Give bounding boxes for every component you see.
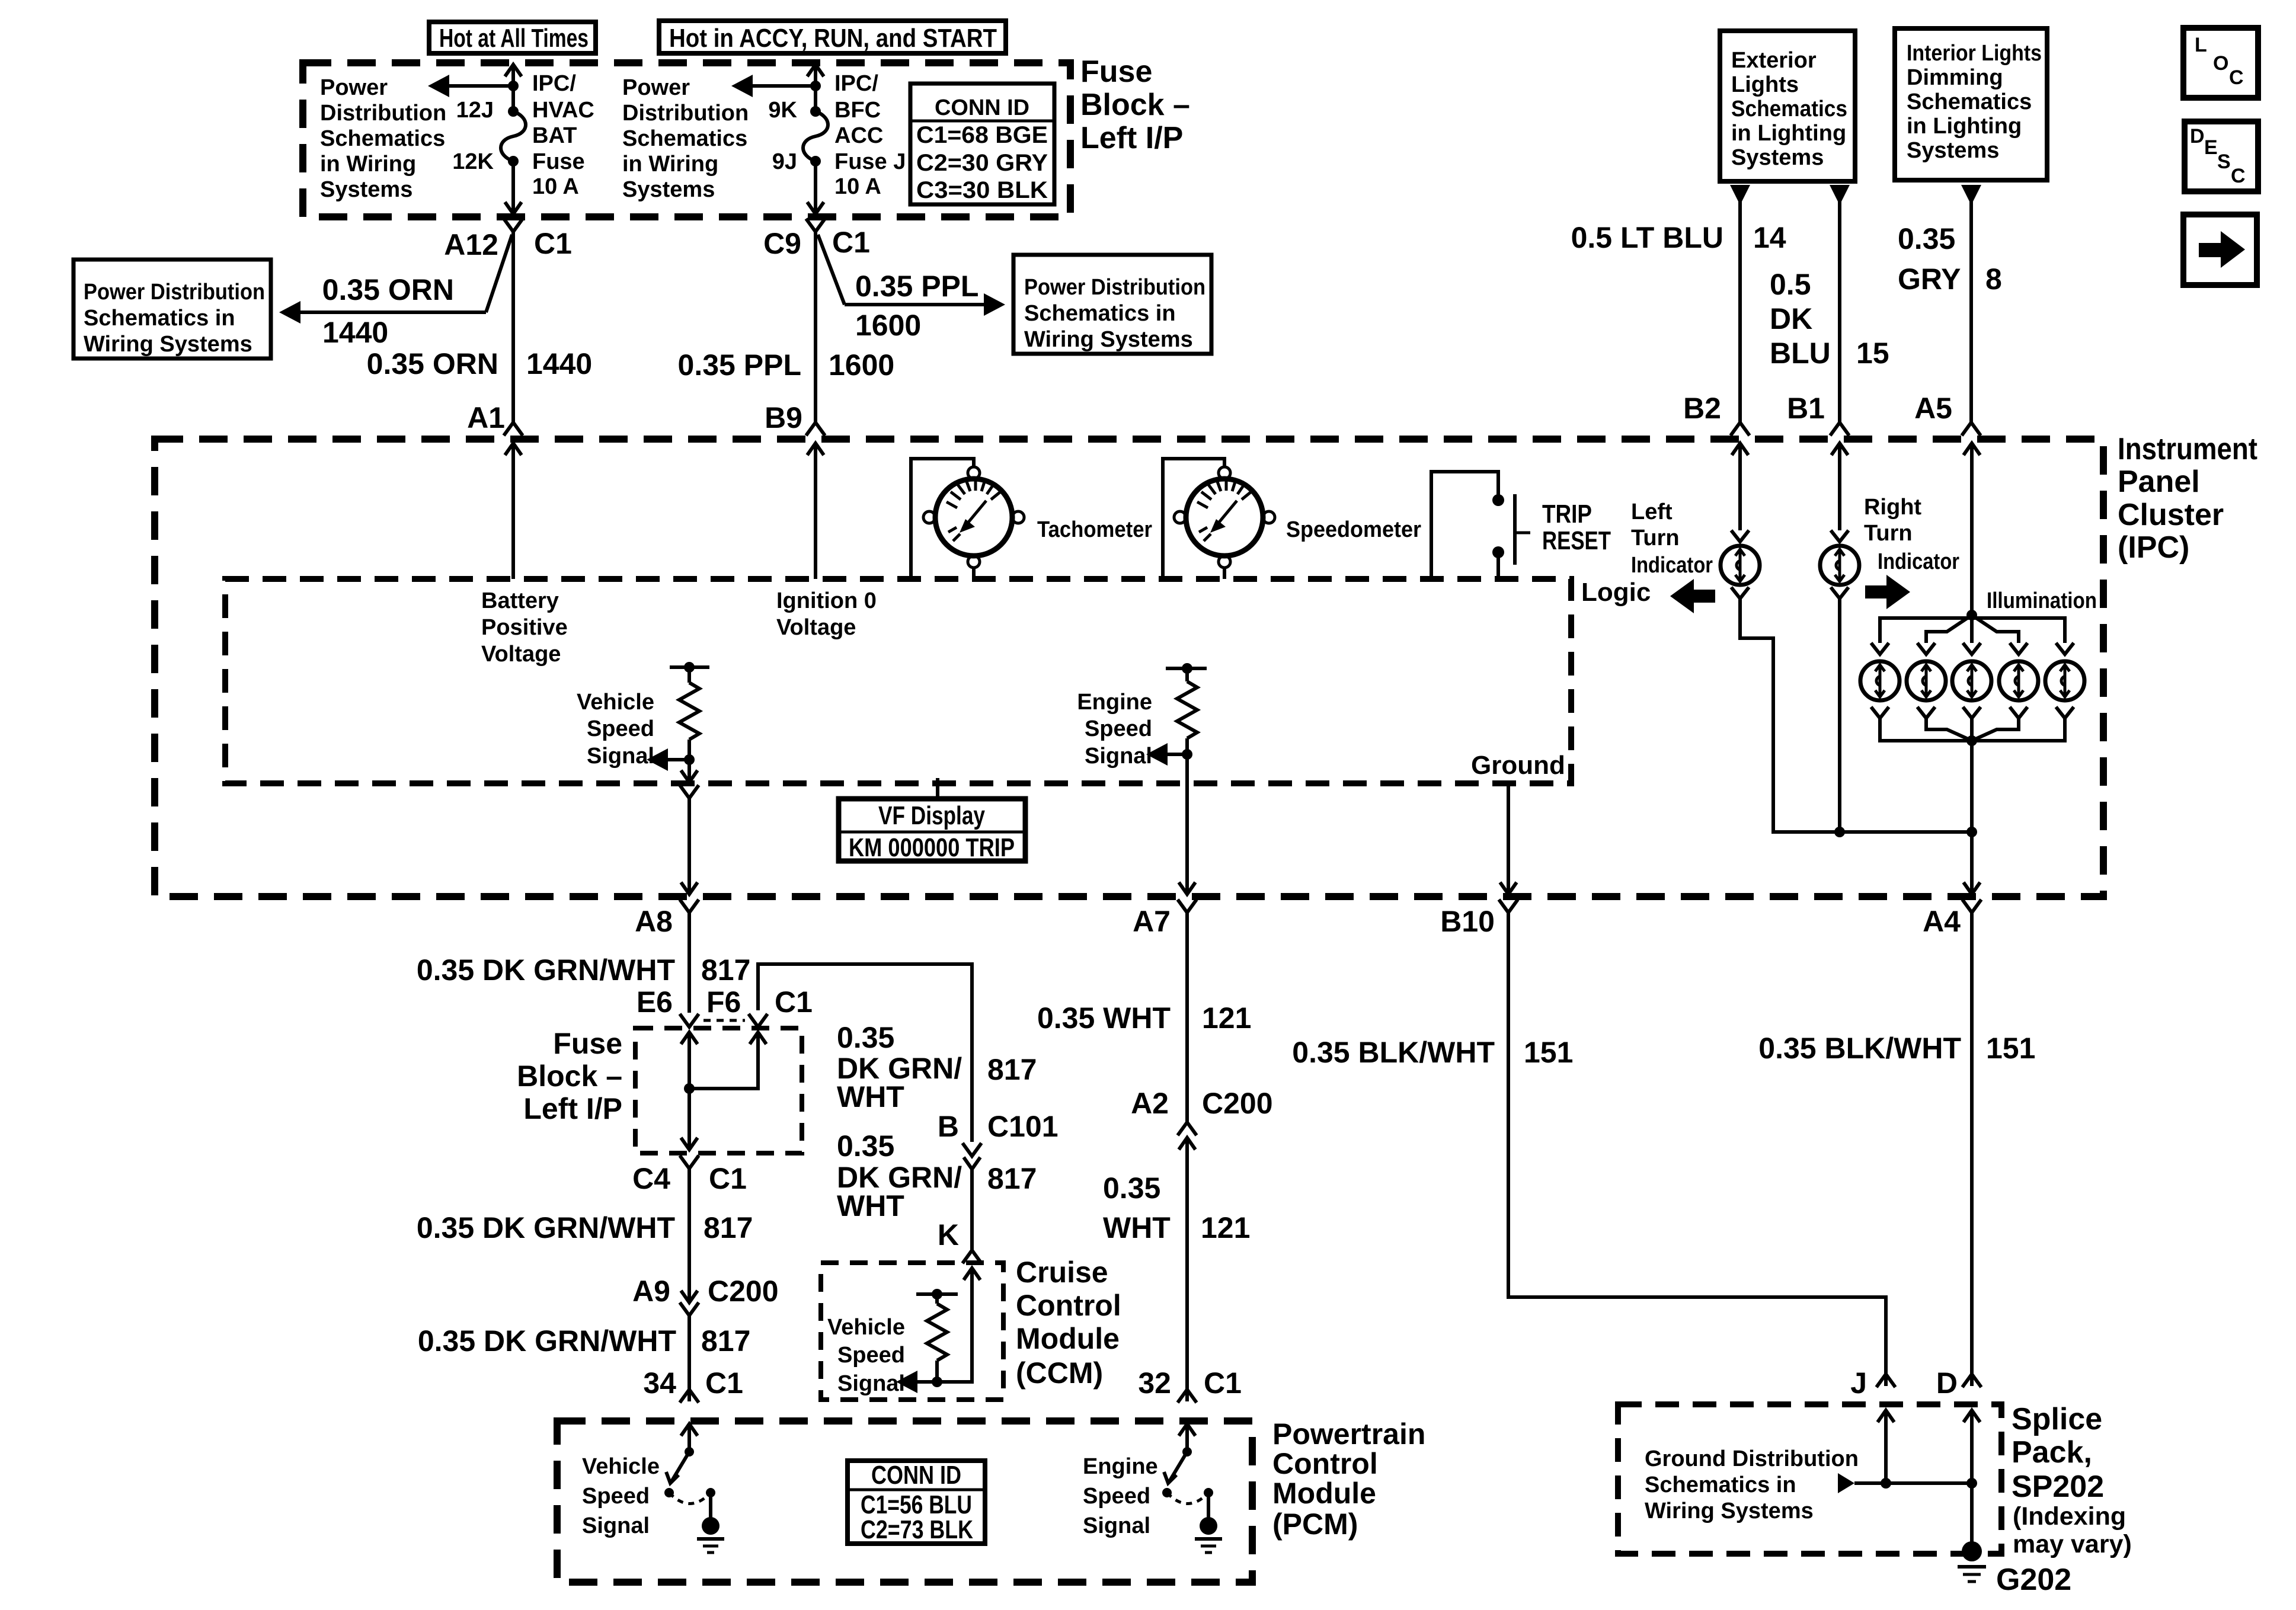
svg-text:0.35 DK GRN/WHT: 0.35 DK GRN/WHT bbox=[417, 1211, 675, 1244]
svg-text:Tachometer: Tachometer bbox=[1037, 517, 1152, 542]
svg-text:Control: Control bbox=[1272, 1447, 1378, 1480]
connector forks below illumination bulbs bbox=[1871, 707, 2074, 718]
svg-text:in Wiring: in Wiring bbox=[320, 152, 416, 177]
svg-text:Engine: Engine bbox=[1077, 690, 1152, 715]
connector forks above illumination bulbs bbox=[1871, 643, 2074, 654]
svg-text:Schematics: Schematics bbox=[1731, 97, 1847, 121]
svg-text:Voltage: Voltage bbox=[776, 615, 856, 640]
node: left/right indicator ground junction bbox=[1834, 827, 1845, 837]
svg-text:J: J bbox=[1850, 1366, 1867, 1400]
svg-text:BLU: BLU bbox=[1770, 337, 1831, 370]
wire: 0.5 LT BLU 14 (B2) bbox=[1738, 201, 1742, 423]
ground: vehicle speed signal switch bbox=[697, 1493, 724, 1553]
label: 0.5 DK BLU bbox=[1770, 268, 1831, 370]
svg-text:Signal: Signal bbox=[1083, 1513, 1150, 1538]
svg-text:KM 000000 TRIP: KM 000000 TRIP bbox=[849, 833, 1015, 862]
arrow up inside fuse block (C1 wire) bbox=[750, 1032, 766, 1044]
connector fork B2 at IPC top bbox=[1731, 422, 1750, 436]
svg-text:Systems: Systems bbox=[320, 177, 412, 202]
reference box: Interior Lights Dimming Schematics in Lighting Systems bbox=[1895, 28, 2047, 180]
svg-text:Logic: Logic bbox=[1581, 578, 1651, 607]
wire: illumination feed to bulb 3 bbox=[1970, 615, 1974, 643]
VF Display box bbox=[839, 778, 1025, 862]
wire: illumination bottom bus bbox=[1880, 718, 2065, 741]
label: Cruise Control Module (CCM) bbox=[1016, 1256, 1121, 1390]
label: 0.35 WHT (A2) bbox=[1103, 1172, 1171, 1244]
svg-text:Interior Lights: Interior Lights bbox=[1907, 41, 2042, 66]
svg-text:12J: 12J bbox=[456, 98, 494, 123]
svg-text:34: 34 bbox=[643, 1366, 676, 1400]
dashed link between fuse block connectors bbox=[703, 1019, 745, 1022]
svg-text:Systems: Systems bbox=[622, 177, 715, 202]
connector fork K at CCM top bbox=[962, 1250, 981, 1263]
label: Ignition 0 Voltage bbox=[776, 588, 877, 640]
svg-text:L: L bbox=[2195, 34, 2207, 56]
svg-text:151: 151 bbox=[1986, 1032, 2035, 1065]
svg-text:Wiring Systems: Wiring Systems bbox=[1645, 1499, 1814, 1523]
wire: left turn bulb to junction bbox=[1740, 598, 1840, 832]
wire: A2 to PCM pin 32 bbox=[1185, 1138, 1189, 1401]
svg-text:C2=73 BLK: C2=73 BLK bbox=[861, 1515, 973, 1544]
label: Battery Positive Voltage bbox=[481, 588, 568, 667]
svg-text:Lights: Lights bbox=[1731, 72, 1799, 97]
connector fork C9/C1 bbox=[806, 219, 825, 232]
svg-text:Schematics in: Schematics in bbox=[1645, 1473, 1796, 1497]
svg-text:Power: Power bbox=[320, 75, 388, 100]
svg-text:C: C bbox=[2231, 165, 2246, 187]
splice pack dashed box bbox=[1618, 1404, 2001, 1554]
wire: B9 ignition feed inside IPC bbox=[814, 443, 817, 579]
in-line connector A9/C200 bbox=[680, 1291, 699, 1315]
arrow up inside splice pack at J bbox=[1878, 1410, 1894, 1422]
svg-text:C200: C200 bbox=[1202, 1087, 1273, 1120]
svg-text:Vehicle: Vehicle bbox=[827, 1315, 905, 1340]
label: Right Turn Indicator bbox=[1864, 495, 1959, 574]
triangle marker: exterior lights to B2 bbox=[1730, 185, 1750, 205]
label: Vehicle Speed Signal (PCM) bbox=[582, 1454, 660, 1538]
svg-text:Ground Distribution: Ground Distribution bbox=[1645, 1446, 1859, 1471]
svg-text:0.35: 0.35 bbox=[1103, 1172, 1160, 1205]
svg-text:Splice: Splice bbox=[2012, 1402, 2102, 1436]
wire: C9 to B9 (0.35 PPL) bbox=[814, 232, 817, 423]
svg-text:S: S bbox=[2217, 151, 2231, 173]
connector fork above right turn bulb bbox=[1831, 530, 1849, 542]
svg-text:9K: 9K bbox=[768, 98, 797, 123]
switch: vehicle speed signal (PCM) bbox=[664, 1447, 715, 1504]
wire: speedometer bottom to logic box bbox=[1223, 568, 1226, 579]
wire: C4 to A9 bbox=[687, 1169, 691, 1301]
svg-text:Illumination: Illumination bbox=[1987, 588, 2097, 613]
wire: slant branch from A12 to 0.35 ORN run bbox=[486, 235, 512, 312]
arrowhead: 0.35 ORN to Power Distribution box bbox=[279, 301, 300, 324]
svg-text:0.35: 0.35 bbox=[837, 1021, 894, 1054]
connector fork A5 at IPC top bbox=[1962, 422, 1981, 436]
connector fork B10 below IPC bbox=[1499, 900, 1518, 913]
legend box: LOC bbox=[2183, 28, 2258, 98]
connector fork 34 at PCM top bbox=[680, 1390, 699, 1403]
svg-text:0.35 DK GRN/WHT: 0.35 DK GRN/WHT bbox=[418, 1324, 676, 1358]
wire: bulb 2 return bbox=[1926, 718, 1972, 741]
svg-text:A7: A7 bbox=[1133, 905, 1171, 938]
svg-text:Fuse: Fuse bbox=[553, 1027, 622, 1060]
svg-text:Signal: Signal bbox=[837, 1371, 905, 1396]
connector fork A7 below IPC bbox=[1178, 900, 1197, 913]
Instrument Panel Cluster dashed box bbox=[155, 439, 2103, 897]
label: 0.35 DK GRN/WHT (branch upper) bbox=[837, 1021, 962, 1113]
label: Ground Distribution Schematics in Wiring Systems bbox=[1645, 1446, 1859, 1523]
connector fork below logic box (VSS) bbox=[680, 785, 699, 798]
svg-text:D: D bbox=[1936, 1366, 1958, 1400]
svg-text:0.5 LT BLU: 0.5 LT BLU bbox=[1571, 221, 1723, 254]
wire: C101 to CCM pin K bbox=[970, 1169, 974, 1250]
svg-text:A2: A2 bbox=[1131, 1087, 1169, 1120]
svg-text:C3=30 BLK: C3=30 BLK bbox=[916, 177, 1048, 203]
wire: 0.35 ORN 1440 horizontal run bbox=[299, 311, 486, 314]
svg-text:0.35 DK GRN/WHT: 0.35 DK GRN/WHT bbox=[417, 953, 675, 987]
arrow up at fuse block top edge (fuse J) bbox=[807, 65, 824, 76]
svg-text:A4: A4 bbox=[1923, 905, 1961, 938]
arrow down at IPC bottom edge (A4) bbox=[1964, 882, 1980, 894]
wire: 0.35 PPL 1600 horizontal run bbox=[845, 303, 985, 306]
svg-text:Left I/P: Left I/P bbox=[523, 1092, 622, 1125]
label: Vehicle Speed Signal (IPC) bbox=[577, 690, 654, 769]
lamp: Right Turn Indicator bulb bbox=[1820, 546, 1859, 585]
svg-text:Exterior: Exterior bbox=[1731, 48, 1817, 73]
svg-text:(PCM): (PCM) bbox=[1272, 1507, 1358, 1541]
wire: B10 ground run to splice pack J bbox=[1508, 913, 1886, 1386]
svg-text:WHT: WHT bbox=[837, 1189, 904, 1222]
arrow: CCM vehicle speed signal tap bbox=[896, 1371, 937, 1393]
svg-text:BAT: BAT bbox=[532, 123, 577, 148]
svg-text:Speed: Speed bbox=[587, 716, 654, 741]
svg-text:Power Distribution: Power Distribution bbox=[1024, 275, 1205, 300]
svg-text:Powertrain: Powertrain bbox=[1272, 1417, 1425, 1451]
label: Left Turn Indicator bbox=[1631, 500, 1713, 578]
svg-text:WHT: WHT bbox=[1103, 1211, 1171, 1244]
svg-text:ACC: ACC bbox=[834, 123, 883, 148]
svg-text:0.35 PPL: 0.35 PPL bbox=[855, 270, 978, 303]
triangle marker: exterior lights to B1 bbox=[1830, 185, 1850, 205]
svg-text:C9: C9 bbox=[763, 227, 801, 260]
svg-text:1440: 1440 bbox=[526, 347, 592, 380]
svg-text:D: D bbox=[2190, 125, 2205, 148]
svg-text:Turn: Turn bbox=[1631, 526, 1680, 550]
wire: Ground lead inside IPC bbox=[1507, 783, 1510, 894]
svg-text:Distribution: Distribution bbox=[320, 101, 446, 126]
svg-text:RESET: RESET bbox=[1542, 526, 1611, 555]
arrow up at fuse block top edge (fuse 1) bbox=[505, 65, 522, 76]
black arrow: left turn bbox=[1670, 579, 1715, 613]
node: splice junction J bbox=[1881, 1478, 1891, 1489]
wire: illumination feed to bulb 2 bbox=[1926, 615, 1972, 643]
wire: A4 ground run to splice pack D bbox=[1970, 913, 1974, 1386]
label: Engine Speed Signal (IPC) bbox=[1077, 690, 1152, 769]
svg-text:C4: C4 bbox=[632, 1162, 670, 1195]
svg-text:Speed: Speed bbox=[837, 1343, 905, 1368]
svg-text:CONN ID: CONN ID bbox=[871, 1461, 961, 1490]
wire: A7 to A2 bbox=[1185, 913, 1189, 1122]
arrow: engine speed signal tap bbox=[1146, 743, 1187, 766]
svg-text:(IPC): (IPC) bbox=[2118, 530, 2189, 565]
resistor: Vehicle Speed Signal (IPC) bbox=[670, 662, 709, 765]
svg-text:Wiring Systems: Wiring Systems bbox=[84, 332, 252, 357]
wire: branch to Power Distribution (left arrow, fuse J) bbox=[752, 84, 816, 88]
svg-text:B2: B2 bbox=[1683, 392, 1721, 425]
label: Instrument Panel Cluster (IPC) bbox=[2118, 432, 2257, 565]
in-line connector B/C101 bbox=[962, 1143, 981, 1169]
legend box: DESC bbox=[2185, 121, 2258, 191]
lamps: illumination bulbs x5 bbox=[1860, 661, 2084, 700]
svg-text:K: K bbox=[938, 1218, 959, 1251]
svg-text:1600: 1600 bbox=[855, 309, 921, 342]
svg-text:DK: DK bbox=[1770, 302, 1812, 335]
wire: indicator junction to A4 wire bbox=[1840, 830, 1972, 834]
svg-text:0.35: 0.35 bbox=[1898, 222, 1955, 255]
CONN ID table (PCM) bbox=[848, 1461, 985, 1544]
svg-text:121: 121 bbox=[1202, 1001, 1251, 1035]
fuse block dashed box (Fuse Block - Left I/P, top) bbox=[303, 63, 1070, 217]
svg-text:0.35: 0.35 bbox=[837, 1129, 894, 1163]
resistor: Vehicle Speed Signal (CCM) bbox=[916, 1289, 958, 1387]
black arrow: right turn bbox=[1865, 575, 1910, 609]
svg-text:10 A: 10 A bbox=[834, 174, 881, 199]
svg-text:A12: A12 bbox=[444, 228, 498, 261]
wire: bulb 3 return bbox=[1970, 718, 1974, 741]
label: Vehicle Speed Signal (CCM) bbox=[827, 1315, 905, 1396]
arrow down at fuse block bottom edge (fuse 1) bbox=[505, 202, 522, 214]
wire: fuse 1 output down bbox=[511, 161, 515, 215]
svg-text:1600: 1600 bbox=[829, 348, 894, 382]
text: Power Distribution Schematics in Wiring Systems (fuse J) bbox=[622, 75, 749, 202]
label: Fuse Block - Left I/P (lower) bbox=[517, 1027, 622, 1125]
svg-text:Positive: Positive bbox=[481, 615, 568, 640]
fuse F2: IPC/BFC ACC Fuse J 10 A bbox=[803, 106, 828, 167]
svg-text:Turn: Turn bbox=[1864, 521, 1913, 546]
wire: Hot in ACCY feed into fuse J bbox=[814, 64, 817, 111]
wire: A5 to illumination junction bbox=[1970, 443, 1974, 615]
arrow up inside IPC at A1 bbox=[505, 443, 522, 455]
arrow up inside splice pack at D bbox=[1964, 1410, 1980, 1422]
wire: K lead inside CCM bbox=[937, 1268, 972, 1382]
wire: slant branch from C9 to 0.35 PPL run bbox=[818, 235, 845, 305]
arrow down at IPC bottom edge (A7) bbox=[1179, 882, 1195, 894]
connector fork below left turn bulb bbox=[1731, 587, 1749, 598]
svg-text:Cluster: Cluster bbox=[2118, 498, 2224, 532]
svg-text:0.35 ORN: 0.35 ORN bbox=[367, 347, 498, 380]
svg-text:12K: 12K bbox=[452, 149, 494, 174]
svg-text:Signal: Signal bbox=[582, 1513, 650, 1538]
svg-text:TRIP: TRIP bbox=[1542, 500, 1592, 529]
svg-text:0.5: 0.5 bbox=[1770, 268, 1811, 301]
ground: engine speed signal switch bbox=[1195, 1493, 1222, 1553]
svg-text:Schematics in: Schematics in bbox=[84, 306, 235, 331]
svg-text:E6: E6 bbox=[637, 985, 673, 1019]
reference box: Exterior Lights Schematics in Lighting Systems bbox=[1720, 31, 1855, 181]
svg-text:Speedometer: Speedometer bbox=[1286, 517, 1421, 542]
wire: 0.5 DK BLU 15 (B1) bbox=[1838, 201, 1841, 423]
svg-text:1440: 1440 bbox=[322, 316, 388, 349]
label: 0.35 GRY bbox=[1898, 222, 1961, 296]
connector fork E6/F6 bbox=[680, 1014, 699, 1027]
lamp: Left Turn Indicator bulb bbox=[1721, 546, 1760, 585]
triangle marker: interior lights to A5 bbox=[1961, 185, 1981, 205]
arrow up inside IPC at A5 bbox=[1964, 443, 1980, 455]
label: IPC/HVAC BAT Fuse 10 A bbox=[532, 71, 594, 199]
svg-text:E: E bbox=[2204, 136, 2218, 159]
svg-text:817: 817 bbox=[703, 1211, 753, 1244]
wire: 817 branch to CCM (via C1) bbox=[758, 964, 972, 1142]
svg-text:Speed: Speed bbox=[582, 1484, 650, 1509]
svg-text:Speed: Speed bbox=[1083, 1484, 1150, 1509]
arrow down at logic box edge (VSS) bbox=[681, 770, 698, 782]
svg-text:B10: B10 bbox=[1440, 905, 1495, 938]
wire: A9 to PCM pin 34 bbox=[687, 1315, 691, 1401]
gauge: Speedometer bbox=[1163, 459, 1275, 579]
text: Power Distribution Schematics in Wiring Systems (fuse 1) bbox=[320, 75, 446, 202]
header box: Hot in ACCY, RUN, and START bbox=[659, 21, 1006, 53]
wire: VSS to A8 bbox=[687, 798, 691, 894]
svg-text:A5: A5 bbox=[1914, 392, 1952, 425]
svg-text:0.35 ORN: 0.35 ORN bbox=[322, 273, 454, 306]
svg-text:Vehicle: Vehicle bbox=[582, 1454, 660, 1479]
node: splice junction D bbox=[1966, 1478, 1977, 1489]
svg-text:GRY: GRY bbox=[1898, 263, 1961, 296]
svg-text:C1=68 BGE: C1=68 BGE bbox=[916, 122, 1048, 148]
svg-text:32: 32 bbox=[1138, 1366, 1171, 1400]
svg-text:CONN ID: CONN ID bbox=[935, 95, 1029, 120]
arrowhead: to Power Distribution Schematics (fuse J) bbox=[731, 75, 753, 97]
svg-text:121: 121 bbox=[1201, 1211, 1250, 1244]
svg-text:Power Distribution: Power Distribution bbox=[84, 280, 265, 305]
svg-text:Engine: Engine bbox=[1083, 1454, 1158, 1479]
svg-text:Schematics in: Schematics in bbox=[1024, 301, 1176, 326]
wire: branch to Power Distribution (left arrow, fuse 1) bbox=[448, 84, 513, 88]
svg-text:Hot in ACCY, RUN, and START: Hot in ACCY, RUN, and START bbox=[669, 24, 997, 53]
wire: B2 to left turn bulb bbox=[1738, 443, 1742, 530]
svg-text:SP202: SP202 bbox=[2012, 1470, 2104, 1504]
svg-text:C1: C1 bbox=[534, 227, 572, 260]
svg-text:Signal: Signal bbox=[587, 744, 654, 769]
wire: 0.35 GRY 8 (A5) bbox=[1969, 201, 1973, 423]
arrow down at IPC bottom edge (B10) bbox=[1500, 882, 1517, 894]
label: TRIP RESET bbox=[1542, 500, 1611, 555]
svg-text:Instrument: Instrument bbox=[2118, 432, 2257, 466]
arrowhead: 0.35 PPL to Power Distribution box bbox=[984, 293, 1005, 316]
svg-text:C2=30 GRY: C2=30 GRY bbox=[916, 150, 1048, 176]
wire: A8 to fuse block E6 bbox=[687, 913, 691, 1013]
wire: fuse block internal main bbox=[687, 1032, 691, 1150]
svg-text:Right: Right bbox=[1864, 495, 1921, 520]
connector fork below right turn bulb bbox=[1831, 587, 1849, 598]
connector fork C4 below fuse block bbox=[680, 1156, 699, 1169]
connector fork D at splice pack bbox=[1962, 1374, 1981, 1387]
svg-text:817: 817 bbox=[987, 1053, 1037, 1086]
connector fork 32 at PCM top bbox=[1178, 1390, 1197, 1403]
CONN ID table (fuse block) bbox=[910, 84, 1054, 204]
arrow down at fuse block bottom edge (C4) bbox=[681, 1138, 698, 1150]
wire: ESS to A7 bbox=[1185, 754, 1189, 894]
svg-text:C200: C200 bbox=[708, 1275, 779, 1308]
wire: A1 battery feed inside IPC bbox=[511, 443, 515, 579]
wire: B1 to right turn bulb bbox=[1838, 443, 1841, 530]
svg-text:Control: Control bbox=[1016, 1289, 1121, 1322]
connector fork A4 below IPC bbox=[1962, 900, 1981, 913]
svg-text:Hot at All Times: Hot at All Times bbox=[439, 24, 589, 53]
svg-text:BFC: BFC bbox=[834, 98, 881, 123]
label: Fuse Block - Left I/P bbox=[1080, 55, 1190, 155]
svg-text:8: 8 bbox=[1985, 263, 2002, 296]
svg-text:Ignition 0: Ignition 0 bbox=[776, 588, 877, 613]
arrow down at IPC bottom edge (A8) bbox=[681, 882, 698, 894]
svg-text:0.35 BLK/WHT: 0.35 BLK/WHT bbox=[1758, 1032, 1961, 1065]
label: Engine Speed Signal (PCM) bbox=[1083, 1454, 1158, 1538]
svg-text:Voltage: Voltage bbox=[481, 642, 561, 667]
svg-text:Cruise: Cruise bbox=[1016, 1256, 1108, 1289]
svg-text:VF Display: VF Display bbox=[878, 801, 985, 830]
svg-text:Schematics: Schematics bbox=[1907, 89, 2032, 114]
wire: splice to ground G202 bbox=[1970, 1483, 1974, 1547]
wire: D lead to splice junction bbox=[1970, 1410, 1974, 1483]
svg-text:C: C bbox=[2229, 66, 2244, 89]
switch: TRIP RESET button bbox=[1431, 472, 1530, 579]
svg-text:Fuse J: Fuse J bbox=[834, 149, 906, 174]
Powertrain Control Module dashed box bbox=[557, 1421, 1252, 1582]
label: Splice Pack, SP202 (Indexing may vary) bbox=[2012, 1402, 2132, 1558]
wire: right turn bulb to junction bbox=[1838, 598, 1841, 832]
svg-text:B1: B1 bbox=[1787, 392, 1825, 425]
svg-text:Fuse: Fuse bbox=[1080, 55, 1152, 89]
svg-text:Systems: Systems bbox=[1731, 145, 1824, 170]
svg-text:Vehicle: Vehicle bbox=[577, 690, 654, 715]
svg-text:0.35 BLK/WHT: 0.35 BLK/WHT bbox=[1292, 1036, 1495, 1069]
svg-text:Block –: Block – bbox=[1080, 88, 1190, 122]
IPC logic sub-box (dashed) bbox=[225, 579, 1571, 783]
svg-text:Dimming: Dimming bbox=[1907, 65, 2003, 90]
svg-text:B9: B9 bbox=[765, 401, 802, 434]
arrow up inside PCM at 32 bbox=[1179, 1424, 1195, 1436]
header box: Hot at All Times bbox=[429, 22, 596, 53]
svg-text:817: 817 bbox=[701, 953, 750, 987]
svg-text:0.35 WHT: 0.35 WHT bbox=[1037, 1001, 1171, 1035]
wire: fuse J output down bbox=[814, 161, 817, 215]
svg-text:Module: Module bbox=[1272, 1477, 1376, 1510]
svg-text:HVAC: HVAC bbox=[532, 98, 594, 123]
svg-text:Ground: Ground bbox=[1471, 751, 1565, 780]
reference box: Power Distribution Schematics in Wiring Systems (left) bbox=[73, 260, 271, 359]
svg-text:Distribution: Distribution bbox=[622, 101, 749, 126]
arrowhead: to Power Distribution Schematics (fuse 1) bbox=[428, 75, 449, 97]
svg-text:817: 817 bbox=[987, 1162, 1037, 1195]
svg-text:(Indexing: (Indexing bbox=[2013, 1502, 2126, 1531]
svg-text:A9: A9 bbox=[632, 1275, 670, 1308]
switch: engine speed signal (PCM) bbox=[1162, 1447, 1213, 1504]
svg-text:IPC/: IPC/ bbox=[532, 71, 576, 96]
ground G202 bbox=[1958, 1541, 1986, 1582]
triangle marker: ground distribution feed bbox=[1838, 1473, 1854, 1493]
wire: bulb 4 return bbox=[1972, 718, 2019, 741]
arrow down at fuse block bottom edge (fuse J) bbox=[807, 202, 824, 214]
svg-text:Systems: Systems bbox=[1907, 138, 1999, 163]
connector fork above left turn bulb bbox=[1731, 530, 1749, 542]
svg-text:C101: C101 bbox=[987, 1110, 1059, 1143]
Cruise Control Module dashed box bbox=[821, 1263, 1003, 1400]
wire: tachometer bottom to logic box bbox=[972, 568, 976, 579]
connector fork C1 (branch) bbox=[749, 1014, 768, 1027]
wire: fuse block internal branch bbox=[689, 1032, 758, 1089]
svg-text:Pack,: Pack, bbox=[2012, 1435, 2092, 1470]
connector fork B9 at IPC top bbox=[806, 422, 825, 436]
svg-text:F6: F6 bbox=[706, 985, 741, 1019]
